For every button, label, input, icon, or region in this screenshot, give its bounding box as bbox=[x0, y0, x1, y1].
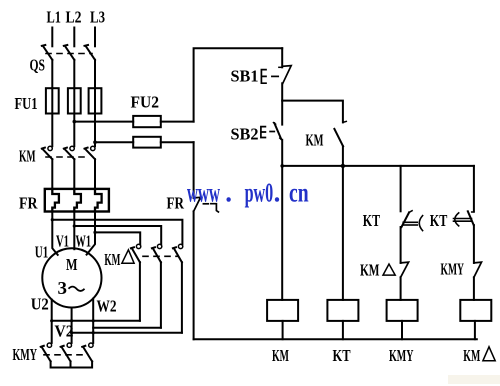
wire FU2 lower to control bbox=[161, 141, 194, 143]
wire QS to FU1 phase3 bbox=[94, 60, 96, 88]
svg-text:KM: KM bbox=[104, 250, 120, 269]
wire FU1 to KM phase1 bbox=[51, 88, 53, 146]
contact KT delayed NO (timed closing) bbox=[402, 211, 423, 231]
svg-text:KMY: KMY bbox=[441, 260, 465, 279]
watermark www.pw0.cn bbox=[187, 178, 309, 208]
wire to KM-delta coil bbox=[473, 277, 475, 300]
switch QS pole 1 bbox=[42, 45, 53, 60]
contact KT delayed NC (timed opening) bbox=[454, 211, 474, 226]
contact KM aux (NO self-hold) bbox=[334, 121, 346, 146]
svg-text:KM: KM bbox=[463, 346, 480, 365]
wire L1 top stub bbox=[51, 28, 53, 47]
svg-text:QS: QS bbox=[30, 56, 46, 75]
wire KMY star bus bbox=[51, 361, 93, 367]
wire L2 top stub bbox=[73, 28, 75, 47]
svg-text:cn: cn bbox=[289, 178, 309, 208]
svg-text:FR: FR bbox=[167, 194, 185, 213]
FR heater element phase3 bbox=[95, 189, 102, 212]
contactor KM main pole 2 bbox=[64, 146, 75, 159]
wire control rail bbox=[282, 165, 474, 167]
cream band artifact bottom right bbox=[448, 375, 500, 384]
node crossing W2-A bbox=[92, 319, 95, 322]
contactor KM main pole 3 bbox=[85, 146, 96, 159]
svg-text:KT: KT bbox=[333, 346, 351, 365]
wire KMY branch top bbox=[400, 166, 402, 211]
wire KM-delta coil to rail bbox=[474, 321, 476, 339]
node tap U1 bbox=[51, 218, 54, 221]
svg-text:KT: KT bbox=[363, 211, 381, 230]
motor tilde mark bbox=[69, 287, 85, 291]
wire delta tap V1 bbox=[74, 226, 161, 244]
wire delta tap W1 bbox=[95, 232, 140, 244]
wire FU1 to KM phase2 bbox=[73, 88, 75, 146]
wire bottom rail bbox=[194, 338, 477, 340]
svg-text:KM: KM bbox=[360, 261, 380, 280]
FR heater element phase1 bbox=[52, 189, 59, 212]
pushbutton SB1 (NC stop) bbox=[261, 48, 291, 83]
svg-text:M: M bbox=[66, 255, 78, 274]
wire control top bbox=[194, 48, 283, 121]
node crossing V2-A bbox=[70, 319, 73, 322]
svg-text:3: 3 bbox=[58, 278, 68, 298]
contact FR (NC thermal, control) bbox=[194, 197, 219, 212]
wire KT contact to KM-delta interlock bbox=[400, 227, 402, 263]
coil KM-delta bbox=[460, 300, 491, 321]
wire FR to bottom rail bbox=[193, 211, 195, 339]
KM linkage dashed bbox=[46, 156, 90, 158]
motor M circle bbox=[42, 248, 101, 307]
svg-text:SB2: SB2 bbox=[231, 125, 259, 144]
svg-text:pw0: pw0 bbox=[245, 178, 274, 208]
FR heater element phase2 bbox=[74, 189, 81, 212]
wire FU1 to KM phase3 bbox=[94, 88, 96, 146]
node tap L2 bbox=[73, 120, 77, 124]
wire FU2 upper to control bbox=[161, 121, 194, 123]
coil KMY bbox=[387, 300, 418, 321]
wire delta link W2 to contact2 bbox=[93, 327, 161, 329]
KMY linkage dashed bbox=[44, 354, 88, 356]
wire motor U2 lead bbox=[51, 300, 53, 343]
svg-text:V1: V1 bbox=[56, 231, 69, 250]
wire control left down from FU2 lower bbox=[193, 142, 195, 198]
wire delta link V2 to contact3 bbox=[72, 332, 182, 334]
wire KM aux branch top bbox=[282, 101, 343, 123]
wire KM to FR phase1 bbox=[51, 159, 53, 189]
contact KM-delta NC interlock bbox=[401, 262, 409, 277]
wire SB2 to rail bbox=[281, 140, 283, 166]
node crossing W2-C bbox=[92, 331, 95, 334]
wire KMY coil to rail bbox=[401, 321, 403, 339]
svg-text:W1: W1 bbox=[76, 231, 92, 250]
wire tap L2 to FU2 upper bbox=[74, 121, 133, 123]
svg-text:.: . bbox=[225, 178, 232, 208]
contactor KMY contact 2 bbox=[61, 343, 72, 361]
wire tap L3 to FU2 lower bbox=[95, 141, 133, 143]
wire KM-delta 2 down bbox=[160, 262, 162, 328]
triangle of KM-delta label (main) bbox=[122, 250, 134, 263]
contactor KM-delta contact 3 bbox=[173, 244, 183, 262]
switch QS pole 3 bbox=[85, 45, 96, 60]
triangle of coil KM-delta label bbox=[483, 347, 495, 361]
wire KM-delta 3 down bbox=[181, 262, 183, 333]
svg-text:W2: W2 bbox=[97, 297, 117, 316]
coil KT bbox=[327, 300, 358, 321]
wire KM-delta branch top bbox=[473, 166, 475, 212]
wire KM-delta 1 down bbox=[139, 262, 141, 321]
fuse FU2 lower bbox=[133, 137, 161, 148]
svg-text:U1: U1 bbox=[35, 243, 49, 262]
svg-text:KMY: KMY bbox=[389, 346, 414, 365]
wire KM coil branch bbox=[281, 166, 283, 300]
contactor KM main pole 1 bbox=[42, 146, 53, 159]
svg-text:.: . bbox=[274, 178, 281, 208]
node tap L3 bbox=[93, 140, 97, 144]
fuse FU1 phase1 bbox=[46, 88, 59, 113]
node U2 link bbox=[50, 319, 53, 322]
svg-text:KM: KM bbox=[19, 147, 36, 166]
wire motor V2 lead bbox=[71, 308, 73, 343]
thermal relay FR box bbox=[45, 189, 109, 212]
coil KM bbox=[267, 300, 298, 321]
contact KMY NC interlock bbox=[474, 262, 482, 277]
QS linkage dashed bbox=[46, 53, 92, 55]
node SB2 rail bbox=[280, 164, 284, 168]
node V2 link bbox=[70, 331, 73, 334]
wire KM coil to rail bbox=[282, 321, 284, 339]
wire FR to motor U1 bbox=[52, 212, 57, 255]
contactor KMY contact 1 bbox=[41, 343, 52, 361]
svg-text:KMY: KMY bbox=[13, 345, 38, 364]
svg-text:U2: U2 bbox=[31, 295, 49, 314]
svg-text:SB1: SB1 bbox=[231, 67, 259, 86]
wire FR to motor W1 bbox=[87, 212, 95, 255]
wire L3 top stub bbox=[94, 28, 96, 47]
wire to KMY coil bbox=[400, 277, 402, 300]
KM-delta linkage dashed bbox=[143, 255, 177, 257]
svg-text:FU1: FU1 bbox=[15, 94, 38, 113]
node tap V1 bbox=[73, 224, 76, 227]
contactor KM-delta contact 2 bbox=[152, 244, 162, 262]
wire KT coil to rail bbox=[342, 321, 344, 339]
wire motor W2 lead bbox=[92, 299, 94, 343]
pushbutton SB2 (NO start) bbox=[261, 123, 282, 140]
wire QS to FU1 phase2 bbox=[73, 60, 75, 88]
contactor KMY contact 3 bbox=[82, 343, 93, 361]
node tap W1 bbox=[93, 231, 96, 234]
wire KM aux to rail bbox=[342, 146, 344, 166]
fuse FU2 upper bbox=[133, 116, 161, 127]
contactor KM-delta contact 1 bbox=[131, 244, 141, 262]
svg-text:FU2: FU2 bbox=[131, 93, 160, 112]
svg-text:L3: L3 bbox=[90, 8, 105, 27]
wire delta tap U1 bbox=[52, 220, 182, 245]
svg-text:V2: V2 bbox=[55, 322, 74, 341]
fuse FU1 phase3 bbox=[89, 88, 102, 113]
wire delta link U2 to contact1 bbox=[52, 320, 140, 322]
wire KM to FR phase2 bbox=[73, 159, 75, 189]
svg-text:L2: L2 bbox=[66, 8, 82, 27]
node KM aux rail bbox=[341, 164, 345, 168]
switch QS pole 2 bbox=[64, 45, 75, 60]
fuse FU1 phase2 bbox=[68, 88, 81, 113]
wire KT coil branch bbox=[342, 166, 344, 300]
wire FR to motor V1 bbox=[73, 212, 75, 250]
wire KM to FR phase3 bbox=[94, 159, 96, 189]
svg-text:KM: KM bbox=[272, 346, 289, 365]
wire QS to FU1 phase1 bbox=[51, 60, 53, 88]
wire KT NC to KMY interlock bbox=[473, 225, 475, 263]
svg-text:KT: KT bbox=[430, 211, 448, 230]
svg-text:FR: FR bbox=[19, 194, 38, 213]
triangle of KM-delta interlock label bbox=[383, 264, 395, 275]
svg-text:L1: L1 bbox=[47, 8, 62, 27]
wire SB1 to node bbox=[281, 83, 283, 124]
svg-text:KM: KM bbox=[306, 131, 324, 150]
svg-text:www: www bbox=[187, 178, 220, 208]
